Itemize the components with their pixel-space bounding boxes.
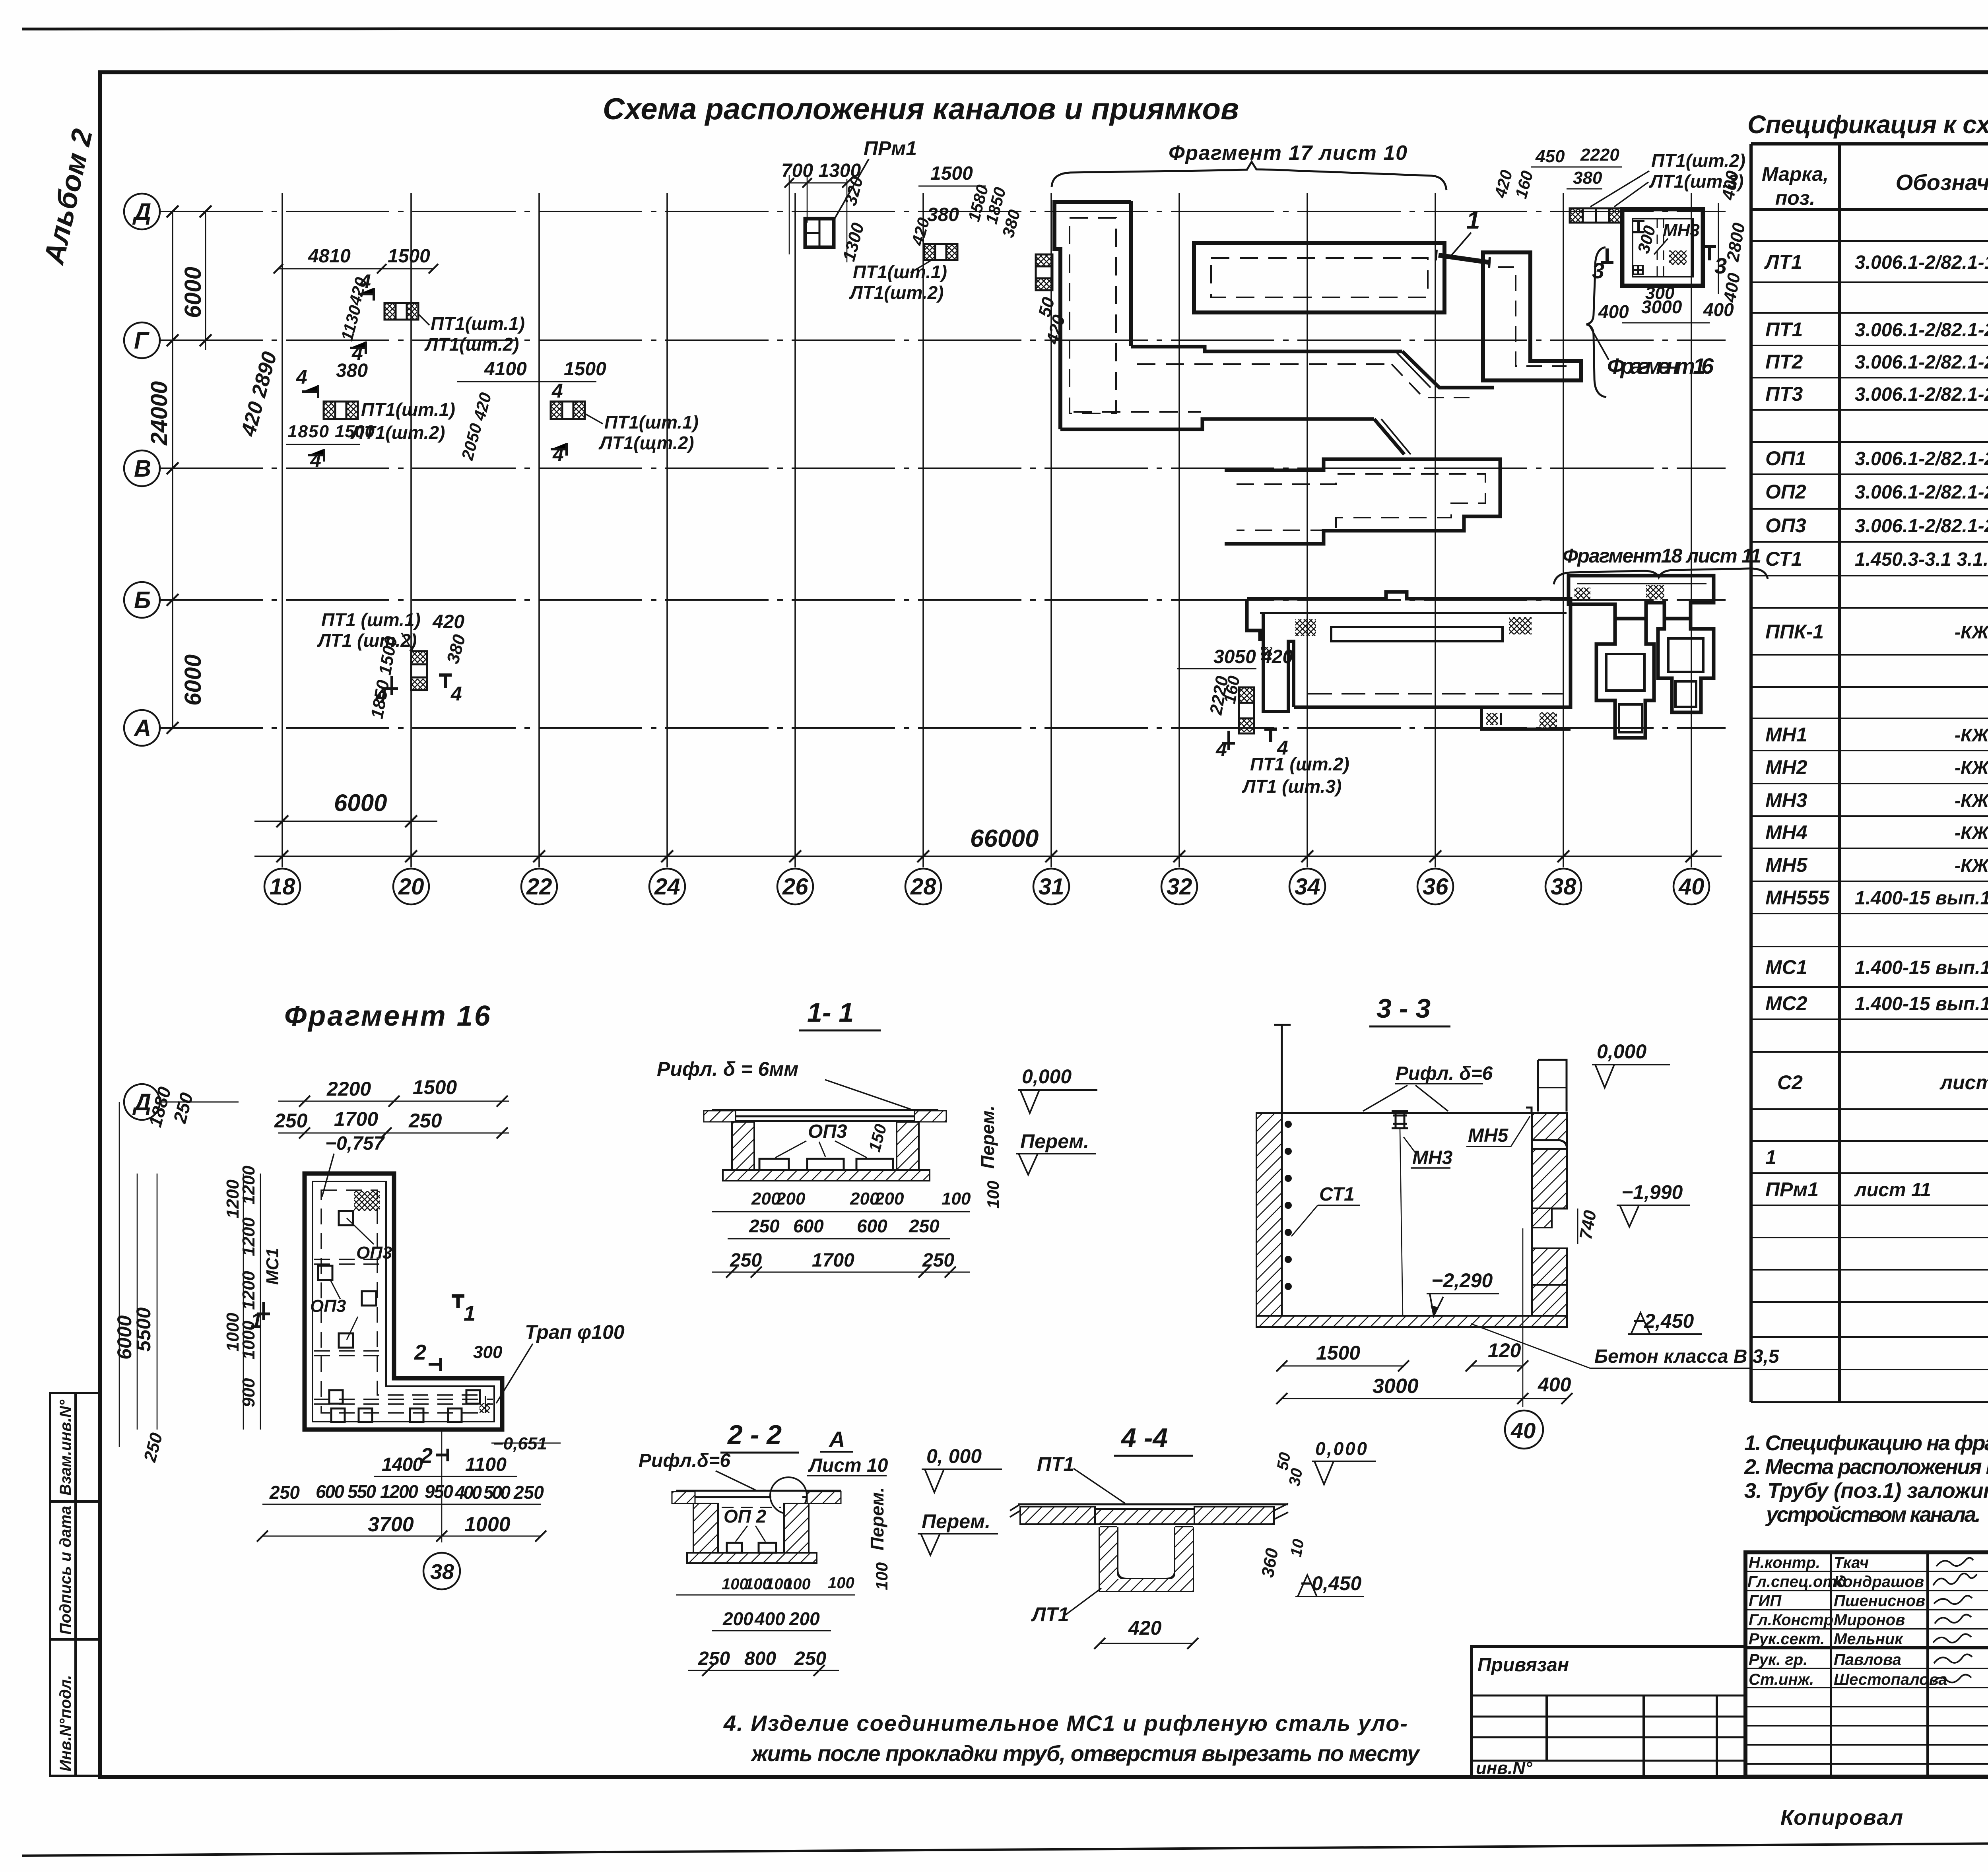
svg-text:Ст.инж.: Ст.инж. bbox=[1749, 1671, 1814, 1688]
svg-text:400: 400 bbox=[1703, 299, 1734, 320]
section 3-3 circle 40 bbox=[1522, 1228, 1524, 1407]
svg-text:МН2: МН2 bbox=[1765, 756, 1807, 778]
svg-text:200: 200 bbox=[789, 1608, 820, 1629]
svg-text:ППК-1: ППК-1 bbox=[1765, 621, 1824, 643]
svg-text:24000: 24000 bbox=[146, 381, 172, 446]
svg-text:3000: 3000 bbox=[1641, 297, 1682, 317]
svg-text:Рифл.δ=6: Рифл.δ=6 bbox=[639, 1450, 730, 1471]
channel C foot box bbox=[1481, 707, 1571, 729]
svg-text:МН5: МН5 bbox=[1765, 854, 1808, 876]
fragment 16 inner dashed contour bbox=[321, 1190, 485, 1413]
svg-text:1500: 1500 bbox=[388, 246, 430, 267]
svg-text:−0,757: −0,757 bbox=[325, 1133, 385, 1154]
plate rect inner dashed bbox=[1211, 258, 1428, 297]
section 3-3 left riser line bbox=[1274, 1025, 1291, 1316]
notes 1-3 bbox=[1744, 1431, 1988, 1527]
svg-text:1500: 1500 bbox=[930, 163, 973, 184]
section 1-1 right wall bbox=[897, 1122, 919, 1170]
svg-text:ОП3: ОП3 bbox=[808, 1121, 847, 1142]
svg-text:900: 900 bbox=[239, 1378, 258, 1407]
svg-text:6000: 6000 bbox=[334, 790, 387, 816]
svg-text:31: 31 bbox=[1039, 874, 1064, 900]
svg-text:36: 36 bbox=[1423, 874, 1448, 900]
svg-text:Рифл. δ = 6мм: Рифл. δ = 6мм bbox=[657, 1058, 798, 1080]
section 2-2 bottom slab bbox=[687, 1553, 817, 1563]
staff labels bbox=[1747, 1554, 1947, 1688]
svg-text:40: 40 bbox=[1678, 874, 1705, 900]
svg-text:0,000: 0,000 bbox=[1597, 1040, 1646, 1063]
svg-text:200: 200 bbox=[874, 1189, 904, 1209]
section 4-4 top slab bbox=[1018, 1503, 1288, 1505]
dim line 66000 bbox=[254, 855, 1722, 857]
svg-text:Шестопалова: Шестопалова bbox=[1834, 1671, 1947, 1688]
svg-text:5500: 5500 bbox=[132, 1307, 155, 1352]
section 3-3 left wall hatch bbox=[1256, 1113, 1282, 1316]
svg-text:Кондрашов: Кондрашов bbox=[1834, 1573, 1924, 1591]
svg-text:Перем.: Перем. bbox=[922, 1510, 990, 1533]
svg-text:100: 100 bbox=[722, 1575, 748, 1593]
svg-text:ОП3: ОП3 bbox=[356, 1243, 392, 1263]
svg-text:Инв.N°подл.: Инв.N°подл. bbox=[57, 1675, 74, 1771]
svg-text:инв.N°: инв.N° bbox=[1476, 1758, 1532, 1778]
fragment 16 hatch cross top bbox=[354, 1191, 380, 1211]
svg-text:0,000: 0,000 bbox=[1022, 1065, 1072, 1088]
svg-text:Обозначение: Обозначение bbox=[1896, 170, 1988, 195]
svg-text:ОП1: ОП1 bbox=[1765, 447, 1806, 469]
svg-text:лист 11: лист 11 bbox=[1854, 1179, 1931, 1201]
svg-text:1000: 1000 bbox=[464, 1513, 511, 1536]
section 3-3 МН3 ibeam bbox=[1392, 1111, 1408, 1128]
svg-text:МС1: МС1 bbox=[1765, 956, 1807, 978]
svg-text:Бетон класса В 3,5: Бетон класса В 3,5 bbox=[1594, 1346, 1780, 1367]
channel A tall rect outline bbox=[1054, 202, 1131, 429]
svg-text:1500: 1500 bbox=[335, 422, 375, 441]
section 3-3 right wall bbox=[1532, 1113, 1567, 1149]
svg-text:Перем.: Перем. bbox=[1020, 1130, 1089, 1152]
svg-text:Трап φ100: Трап φ100 bbox=[525, 1321, 625, 1343]
svg-text:ОП3: ОП3 bbox=[310, 1296, 346, 1316]
pipe poz.1 bbox=[1439, 255, 1489, 262]
L-shape inner dashed bbox=[1498, 267, 1567, 366]
svg-text:2220: 2220 bbox=[1580, 145, 1619, 165]
svg-text:ОП2: ОП2 bbox=[1765, 481, 1806, 503]
fragment 18 pit top bar bbox=[1569, 576, 1714, 619]
sheet bottom edge bbox=[22, 1840, 1988, 1856]
svg-text:3.006.1-2/82.1-2-1.0-003: 3.006.1-2/82.1-2-1.0-003 bbox=[1855, 320, 1988, 341]
svg-text:жить после прокладки труб,: жить после прокладки труб, отверстия выр… bbox=[750, 1741, 1421, 1766]
svg-text:1.400-15 вып.1 005-40: 1.400-15 вып.1 005-40 bbox=[1855, 957, 1988, 978]
svg-text:Гл.Констр: Гл.Констр bbox=[1749, 1611, 1833, 1629]
svg-text:3.006.1-2/82.1-1-01.0-2: 3.006.1-2/82.1-1-01.0-2 bbox=[1855, 252, 1988, 273]
svg-text:28: 28 bbox=[910, 874, 936, 900]
svg-text:−1,990: −1,990 bbox=[1621, 1181, 1683, 1203]
svg-text:Мельник: Мельник bbox=[1834, 1630, 1903, 1648]
signatures squiggles bbox=[1933, 1558, 1977, 1682]
svg-text:100: 100 bbox=[784, 1575, 811, 1593]
svg-text:1: 1 bbox=[464, 1302, 476, 1325]
title block staff rows bbox=[1745, 1571, 1988, 1764]
section 2-2 ground slab bbox=[676, 1491, 841, 1497]
fragment 16 brace bbox=[1586, 247, 1606, 397]
svg-text:100: 100 bbox=[942, 1189, 971, 1209]
svg-text:250: 250 bbox=[909, 1216, 940, 1236]
svg-text:Н.контр.: Н.контр. bbox=[1749, 1554, 1820, 1571]
svg-text:1200: 1200 bbox=[239, 1217, 258, 1256]
svg-text:22: 22 bbox=[526, 874, 552, 900]
axis column lines bbox=[282, 193, 283, 867]
svg-text:3.006.1-2/82.1-2-1.0-096: 3.006.1-2/82.1-2-1.0-096 bbox=[1855, 384, 1988, 405]
section 3-3 top floor line bbox=[1282, 1112, 1532, 1114]
diagonal neck lower bbox=[1374, 419, 1404, 454]
svg-text:-КЖ2и-30.00.00: -КЖ2и-30.00.00 bbox=[1955, 757, 1988, 778]
svg-text:100: 100 bbox=[984, 1181, 1002, 1209]
svg-text:Спецификация к схеме расположе: Спецификация к схеме расположения канало… bbox=[1747, 110, 1988, 139]
svg-text:1100: 1100 bbox=[465, 1454, 507, 1475]
svg-text:Г: Г bbox=[134, 327, 150, 354]
svg-text:250: 250 bbox=[513, 1482, 544, 1503]
svg-text:4: 4 bbox=[375, 684, 387, 706]
svg-text:250: 250 bbox=[698, 1648, 730, 1669]
svg-text:ЛТ1(шт.3): ЛТ1(шт.3) bbox=[1649, 171, 1743, 192]
detail stack L5 at col 31 vertical bbox=[1036, 254, 1052, 290]
svg-text:ПТ1 (шт.1): ПТ1 (шт.1) bbox=[321, 609, 421, 630]
svg-text:Гл.спец.отд: Гл.спец.отд bbox=[1747, 1573, 1846, 1591]
svg-text:поз.: поз. bbox=[1775, 187, 1815, 209]
diagonal neck upper bbox=[1402, 351, 1494, 388]
svg-text:МН555: МН555 bbox=[1765, 887, 1830, 909]
svg-text:3700: 3700 bbox=[368, 1513, 414, 1536]
svg-text:26: 26 bbox=[782, 874, 808, 900]
section 3-3 ladder CT1 dots bbox=[1285, 1121, 1292, 1290]
svg-text:Взам.инв.N°: Взам.инв.N° bbox=[57, 1399, 74, 1496]
svg-text:Марка,: Марка, bbox=[1762, 163, 1829, 185]
detail stack L3 near col 20 row Б-А vertical bbox=[411, 651, 427, 690]
svg-text:10: 10 bbox=[1287, 1538, 1308, 1558]
note 4 bbox=[723, 1711, 1421, 1766]
svg-text:-КЖ2и-33.00.00: -КЖ2и-33.00.00 bbox=[1955, 823, 1988, 843]
svg-text:32: 32 bbox=[1167, 874, 1192, 900]
svg-text:1000: 1000 bbox=[223, 1313, 243, 1352]
svg-text:3.006.1-2/82.1-2-6.0-2: 3.006.1-2/82.1-2-6.0-2 bbox=[1855, 516, 1988, 537]
svg-text:34: 34 bbox=[1295, 874, 1320, 900]
svg-text:550: 550 bbox=[348, 1481, 376, 1502]
svg-text:3. Трубу (поз.1) заложить н: 3. Трубу (поз.1) заложить на отметке дна… bbox=[1744, 1479, 1988, 1503]
svg-text:4: 4 bbox=[450, 683, 462, 705]
svg-text:450: 450 bbox=[1535, 147, 1565, 166]
svg-text:Б: Б bbox=[134, 587, 151, 613]
svg-text:600: 600 bbox=[857, 1216, 887, 1236]
svg-text:-КЖ2и-29.00.00: -КЖ2и-29.00.00 bbox=[1955, 725, 1988, 745]
svg-text:2 - 2: 2 - 2 bbox=[727, 1420, 782, 1450]
detail stack L2 near col 20 row В bbox=[324, 402, 358, 419]
svg-text:400: 400 bbox=[454, 1482, 482, 1503]
ПРм1 pit box near col 26 bbox=[805, 219, 834, 247]
svg-text:МН4: МН4 bbox=[1765, 821, 1807, 844]
svg-text:3000: 3000 bbox=[1373, 1375, 1419, 1398]
svg-text:4 -4: 4 -4 bbox=[1120, 1423, 1168, 1453]
svg-text:Привязан: Привязан bbox=[1477, 1655, 1569, 1676]
svg-text:ПТ1(шт.1): ПТ1(шт.1) bbox=[361, 399, 455, 420]
svg-text:Перем.: Перем. bbox=[867, 1487, 887, 1550]
svg-text:МН3: МН3 bbox=[1663, 221, 1700, 240]
svg-text:ЛТ1: ЛТ1 bbox=[1031, 1603, 1069, 1626]
svg-text:1850: 1850 bbox=[287, 422, 329, 441]
svg-text:ПТ3: ПТ3 bbox=[1765, 383, 1803, 405]
svg-text:Фрагмент 16: Фрагмент 16 bbox=[1607, 353, 1714, 378]
fragment 16 L-shape inner line bbox=[313, 1181, 494, 1422]
svg-text:4100: 4100 bbox=[484, 359, 527, 380]
svg-text:30: 30 bbox=[1286, 1467, 1306, 1487]
svg-text:0, 000: 0, 000 bbox=[926, 1445, 982, 1467]
section 1-1 bottom slab bbox=[723, 1170, 930, 1181]
fragment 16 axis Д circle bbox=[124, 1084, 160, 1120]
section 1-1 top slab bbox=[712, 1110, 938, 1121]
svg-text:А: А bbox=[133, 715, 151, 741]
svg-text:1. Спецификацию на фрагмент: 1. Спецификацию на фрагмент 18 см. лист … bbox=[1744, 1431, 1988, 1455]
axis column circles bbox=[264, 869, 300, 904]
L-shape channel right bbox=[1483, 252, 1581, 380]
svg-text:Рифл. δ=6: Рифл. δ=6 bbox=[1396, 1063, 1493, 1084]
channel C hatch crosses bbox=[1295, 619, 1316, 636]
svg-text:МН5: МН5 bbox=[1468, 1125, 1509, 1146]
svg-text:−2,450: −2,450 bbox=[1633, 1310, 1694, 1332]
channel A plate rect bbox=[1194, 243, 1444, 312]
svg-text:ПТ1(шт.1): ПТ1(шт.1) bbox=[853, 262, 947, 282]
svg-text:ЛТ1(щт.2): ЛТ1(щт.2) bbox=[598, 433, 694, 453]
fragment 16 L-shape outer bbox=[305, 1174, 502, 1430]
svg-text:2: 2 bbox=[414, 1340, 426, 1364]
pit small box mark bbox=[1633, 266, 1643, 274]
left dim chain 24000 bbox=[172, 211, 173, 728]
svg-text:950: 950 bbox=[425, 1481, 453, 1502]
svg-text:Рук.сект.: Рук.сект. bbox=[1749, 1630, 1825, 1648]
svg-text:2200: 2200 bbox=[326, 1078, 371, 1100]
dim line 6000 cols 18-20 bbox=[254, 821, 437, 822]
svg-text:100: 100 bbox=[872, 1562, 891, 1590]
svg-text:4: 4 bbox=[1215, 738, 1227, 760]
svg-text:Рук. гр.: Рук. гр. bbox=[1749, 1651, 1807, 1668]
svg-text:250: 250 bbox=[730, 1250, 762, 1271]
svg-text:1700: 1700 bbox=[334, 1108, 378, 1130]
svg-text:66000: 66000 bbox=[970, 825, 1039, 852]
svg-text:3.006.1-2/82.1-2-1.0-075: 3.006.1-2/82.1-2-1.0-075 bbox=[1855, 352, 1988, 373]
svg-text:0,000: 0,000 bbox=[1315, 1438, 1367, 1459]
svg-text:420: 420 bbox=[1128, 1617, 1162, 1639]
channel C lower outline bbox=[1247, 592, 1571, 707]
svg-text:1500: 1500 bbox=[413, 1076, 457, 1098]
svg-text:6000: 6000 bbox=[180, 267, 206, 318]
detail stack L6 at channel C left bbox=[1239, 687, 1254, 733]
svg-text:Ткач: Ткач bbox=[1834, 1554, 1869, 1571]
svg-text:1- 1: 1- 1 bbox=[807, 997, 854, 1028]
channel C inner rectangle bbox=[1331, 627, 1503, 641]
svg-text:МН3: МН3 bbox=[1412, 1147, 1453, 1168]
fragment 18 pit right stem and box bbox=[1658, 619, 1714, 712]
spec table grid bbox=[1751, 144, 1988, 1402]
svg-text:18: 18 bbox=[270, 874, 295, 900]
svg-text:4: 4 bbox=[296, 366, 307, 388]
pit hatch cross bbox=[1669, 250, 1687, 265]
svg-text:устройством канала.: устройством канала. bbox=[1765, 1503, 1981, 1527]
svg-text:Схема расположения каналов: Схема расположения каналов и приямков bbox=[603, 92, 1239, 126]
svg-text:300: 300 bbox=[473, 1342, 503, 1362]
section 1-1 pads bbox=[759, 1159, 789, 1170]
svg-text:4810: 4810 bbox=[308, 246, 351, 267]
pit I-beam mark bbox=[1633, 221, 1644, 232]
svg-text:Миронов: Миронов bbox=[1834, 1611, 1905, 1629]
svg-text:1500: 1500 bbox=[1316, 1342, 1360, 1364]
svg-text:1.400-15 вып.1 005-20: 1.400-15 вып.1 005-20 bbox=[1855, 993, 1988, 1015]
axis row circles bbox=[124, 194, 160, 229]
section 1-1 left wall bbox=[732, 1122, 754, 1170]
svg-text:МС1: МС1 bbox=[263, 1248, 282, 1285]
fragment 16 ОП3 pads bbox=[318, 1211, 480, 1422]
section 3-3 upper parapet bbox=[1538, 1060, 1567, 1112]
channel C inner bottom thin bbox=[1308, 693, 1563, 694]
fragment 18 pit left stem and box bbox=[1596, 619, 1654, 738]
svg-text:Перем.: Перем. bbox=[977, 1106, 998, 1169]
svg-text:МН1: МН1 bbox=[1765, 724, 1807, 746]
section 1-1 dims bbox=[751, 1189, 971, 1209]
svg-text:38: 38 bbox=[430, 1560, 454, 1584]
pit square near col 34 bbox=[1622, 209, 1703, 286]
svg-text:6000: 6000 bbox=[180, 654, 206, 706]
svg-text:ПТ1(шт.1): ПТ1(шт.1) bbox=[431, 313, 525, 334]
svg-text:ПТ2: ПТ2 bbox=[1765, 351, 1803, 373]
svg-text:ПРм1: ПРм1 bbox=[1765, 1178, 1819, 1201]
svg-text:20: 20 bbox=[398, 874, 424, 900]
svg-text:ПРм1: ПРм1 bbox=[864, 137, 917, 159]
svg-text:3.006.1-2/82.1-2-6.0: 3.006.1-2/82.1-2-6.0 bbox=[1855, 448, 1988, 469]
svg-text:ЛТ1(шт.2): ЛТ1(шт.2) bbox=[849, 282, 944, 303]
svg-text:ЛТ1: ЛТ1 bbox=[1764, 251, 1802, 273]
svg-text:1400: 1400 bbox=[382, 1454, 423, 1475]
svg-text:200: 200 bbox=[722, 1608, 753, 1629]
svg-text:МС2: МС2 bbox=[1765, 992, 1807, 1015]
svg-text:500: 500 bbox=[483, 1482, 511, 1503]
channel B inner dashed bbox=[1237, 474, 1485, 530]
svg-text:250: 250 bbox=[922, 1250, 954, 1271]
svg-text:С2: С2 bbox=[1777, 1071, 1803, 1094]
svg-text:ПТ1: ПТ1 bbox=[1765, 318, 1803, 341]
channel C left stub bbox=[1263, 612, 1294, 712]
detail stack L4 near col 28 row Д bbox=[924, 244, 957, 260]
svg-text:200: 200 bbox=[776, 1189, 806, 1209]
left stamp column boxes bbox=[50, 1393, 100, 1776]
annex box привязан bbox=[1472, 1647, 1745, 1777]
svg-text:38: 38 bbox=[1551, 874, 1576, 900]
svg-text:Лист 10: Лист 10 bbox=[808, 1455, 888, 1476]
section 2-2 pads bbox=[727, 1543, 742, 1553]
svg-text:А: А bbox=[828, 1427, 845, 1452]
section 3-3 bottom slab bbox=[1256, 1316, 1567, 1327]
svg-text:100: 100 bbox=[828, 1574, 854, 1592]
svg-text:В: В bbox=[134, 455, 151, 482]
svg-text:420: 420 bbox=[432, 611, 464, 632]
svg-text:ОП3: ОП3 bbox=[1765, 514, 1806, 537]
svg-text:Павлова: Павлова bbox=[1834, 1651, 1901, 1668]
svg-text:СТ1: СТ1 bbox=[1319, 1184, 1355, 1205]
fragment 16 inner dashed lines horizontal bbox=[314, 1259, 493, 1404]
svg-text:3: 3 bbox=[1714, 253, 1727, 278]
svg-text:600: 600 bbox=[793, 1216, 824, 1236]
svg-text:Копировал: Копировал bbox=[1780, 1806, 1904, 1829]
section 2-2 dashed top bbox=[722, 1507, 781, 1508]
svg-text:400: 400 bbox=[1598, 301, 1629, 322]
svg-text:1: 1 bbox=[1765, 1146, 1776, 1168]
svg-text:380: 380 bbox=[336, 360, 368, 381]
svg-text:380: 380 bbox=[1573, 168, 1602, 188]
axis row lines bbox=[159, 211, 1726, 212]
band A2 top edge bbox=[1131, 347, 1402, 351]
band A2 inner dashed lines bbox=[1137, 363, 1392, 365]
svg-text:250: 250 bbox=[408, 1110, 442, 1132]
svg-text:2. Места расположения подста: 2. Места расположения подставки под колл… bbox=[1744, 1455, 1988, 1479]
section mark 3 right bbox=[1703, 246, 1716, 260]
section 2-2 dims bbox=[722, 1574, 854, 1593]
svg-text:Пшениснов: Пшениснов bbox=[1834, 1592, 1925, 1610]
svg-text:3.006.1-2/82.1-2-6.0-1: 3.006.1-2/82.1-2-6.0-1 bbox=[1855, 482, 1988, 503]
svg-text:ПТ1 (шт.2): ПТ1 (шт.2) bbox=[1250, 754, 1349, 774]
svg-text:1200: 1200 bbox=[380, 1481, 418, 1502]
svg-text:-КЖ2и-32.00.00: -КЖ2и-32.00.00 bbox=[1955, 790, 1988, 811]
title block frame bbox=[1745, 1552, 1988, 1777]
svg-text:3 - 3: 3 - 3 bbox=[1376, 993, 1431, 1024]
svg-text:Фрагмент 17 лист 10: Фрагмент 17 лист 10 bbox=[1169, 142, 1407, 165]
svg-text:4. Изделие соединительное МС: 4. Изделие соединительное МС1 и рифленую… bbox=[723, 1711, 1408, 1736]
section 2-2 walls bbox=[693, 1503, 718, 1553]
svg-text:Подпись и дата: Подпись и дата bbox=[57, 1506, 74, 1635]
detail near col 22 row В (second) bbox=[551, 402, 585, 419]
band A2 bottom edge bbox=[1060, 419, 1374, 429]
svg-text:ОП 2: ОП 2 bbox=[724, 1506, 767, 1527]
svg-text:Д: Д bbox=[132, 198, 151, 225]
svg-text:24: 24 bbox=[654, 874, 680, 900]
svg-text:−2,290: −2,290 bbox=[1431, 1269, 1493, 1292]
channel A tall rect inner dashed bbox=[1070, 218, 1116, 413]
svg-text:1700: 1700 bbox=[812, 1250, 854, 1271]
svg-text:400: 400 bbox=[754, 1608, 785, 1629]
svg-text:МН3: МН3 bbox=[1765, 789, 1807, 811]
svg-text:1200: 1200 bbox=[239, 1271, 258, 1310]
svg-text:3050 420: 3050 420 bbox=[1213, 646, 1293, 667]
svg-text:ПТ1: ПТ1 bbox=[1037, 1453, 1074, 1475]
svg-text:40: 40 bbox=[1510, 1418, 1536, 1443]
svg-text:ЛТ1 (шт.3): ЛТ1 (шт.3) bbox=[1242, 776, 1342, 797]
svg-text:250: 250 bbox=[274, 1110, 308, 1132]
svg-text:4: 4 bbox=[551, 380, 563, 402]
svg-text:ГИП: ГИП bbox=[1749, 1592, 1782, 1610]
svg-text:-КЖ2и-36.00.00: -КЖ2и-36.00.00 bbox=[1955, 855, 1988, 876]
svg-text:1200: 1200 bbox=[223, 1179, 243, 1218]
svg-text:ЛТ1(шт.2): ЛТ1(шт.2) bbox=[424, 334, 519, 355]
diagonal dashed companions bbox=[1392, 364, 1471, 398]
svg-text:лист 10: лист 10 bbox=[1939, 1071, 1988, 1094]
channel C inner top line bbox=[1260, 612, 1567, 614]
svg-text:250: 250 bbox=[269, 1482, 300, 1503]
sheet top edge bbox=[22, 28, 1988, 29]
fragment 16 axis 38 circle bbox=[441, 1430, 443, 1542]
detail stack L1 near col 20 row Г bbox=[384, 303, 418, 320]
section 4-4 trough ЛТ1 bbox=[1100, 1527, 1193, 1591]
svg-text:250: 250 bbox=[749, 1216, 780, 1236]
svg-text:400: 400 bbox=[1538, 1373, 1571, 1396]
svg-text:−0,450: −0,450 bbox=[1300, 1572, 1362, 1595]
svg-text:ПТ1(шт.1): ПТ1(шт.1) bbox=[604, 412, 699, 433]
svg-text:1500: 1500 bbox=[564, 359, 606, 380]
svg-text:250: 250 bbox=[794, 1648, 826, 1669]
svg-text:1: 1 bbox=[1466, 207, 1480, 234]
